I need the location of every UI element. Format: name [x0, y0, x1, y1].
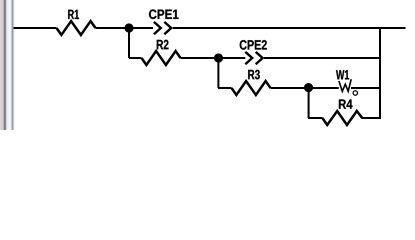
- wire row2 left stub: [129, 57, 142, 59]
- wire row4 left stub: [308, 117, 323, 119]
- label CPE1: [149, 9, 179, 19]
- wire row4 right segment: [362, 117, 382, 119]
- resistor R2: [142, 51, 181, 65]
- label R3: [248, 70, 260, 80]
- node junction 2: [214, 53, 223, 62]
- node junction 1: [124, 23, 133, 32]
- wire row3 left stub: [218, 87, 232, 89]
- wire row1 mid segment: [96, 27, 154, 29]
- node junction 3: [304, 83, 313, 92]
- wire right bus vertical: [379, 27, 381, 119]
- wire row1 right segment: [173, 27, 406, 29]
- Warburg element W1: [339, 79, 358, 95]
- wire row3 right segment: [351, 87, 381, 89]
- CPE element CPE2 (double chevron): [245, 52, 262, 64]
- wire row3 mid segment: [271, 87, 339, 89]
- wire vertical from junction3: [308, 88, 310, 118]
- label CPE2: [240, 40, 267, 50]
- wire row2 mid segment: [181, 57, 246, 59]
- wire vertical from junction1: [128, 28, 130, 58]
- label R4: [339, 100, 353, 109]
- wire vertical from junction2: [217, 58, 219, 88]
- resistor R1: [57, 21, 96, 35]
- wire row2 right segment: [264, 57, 381, 59]
- wire row1 left segment: [14, 27, 57, 29]
- label R1: [68, 10, 79, 19]
- label W1: [336, 70, 349, 79]
- label R2: [157, 40, 169, 49]
- resistor R3: [232, 81, 271, 95]
- resistor R4: [322, 111, 362, 125]
- CPE element CPE1 (double chevron): [154, 22, 171, 34]
